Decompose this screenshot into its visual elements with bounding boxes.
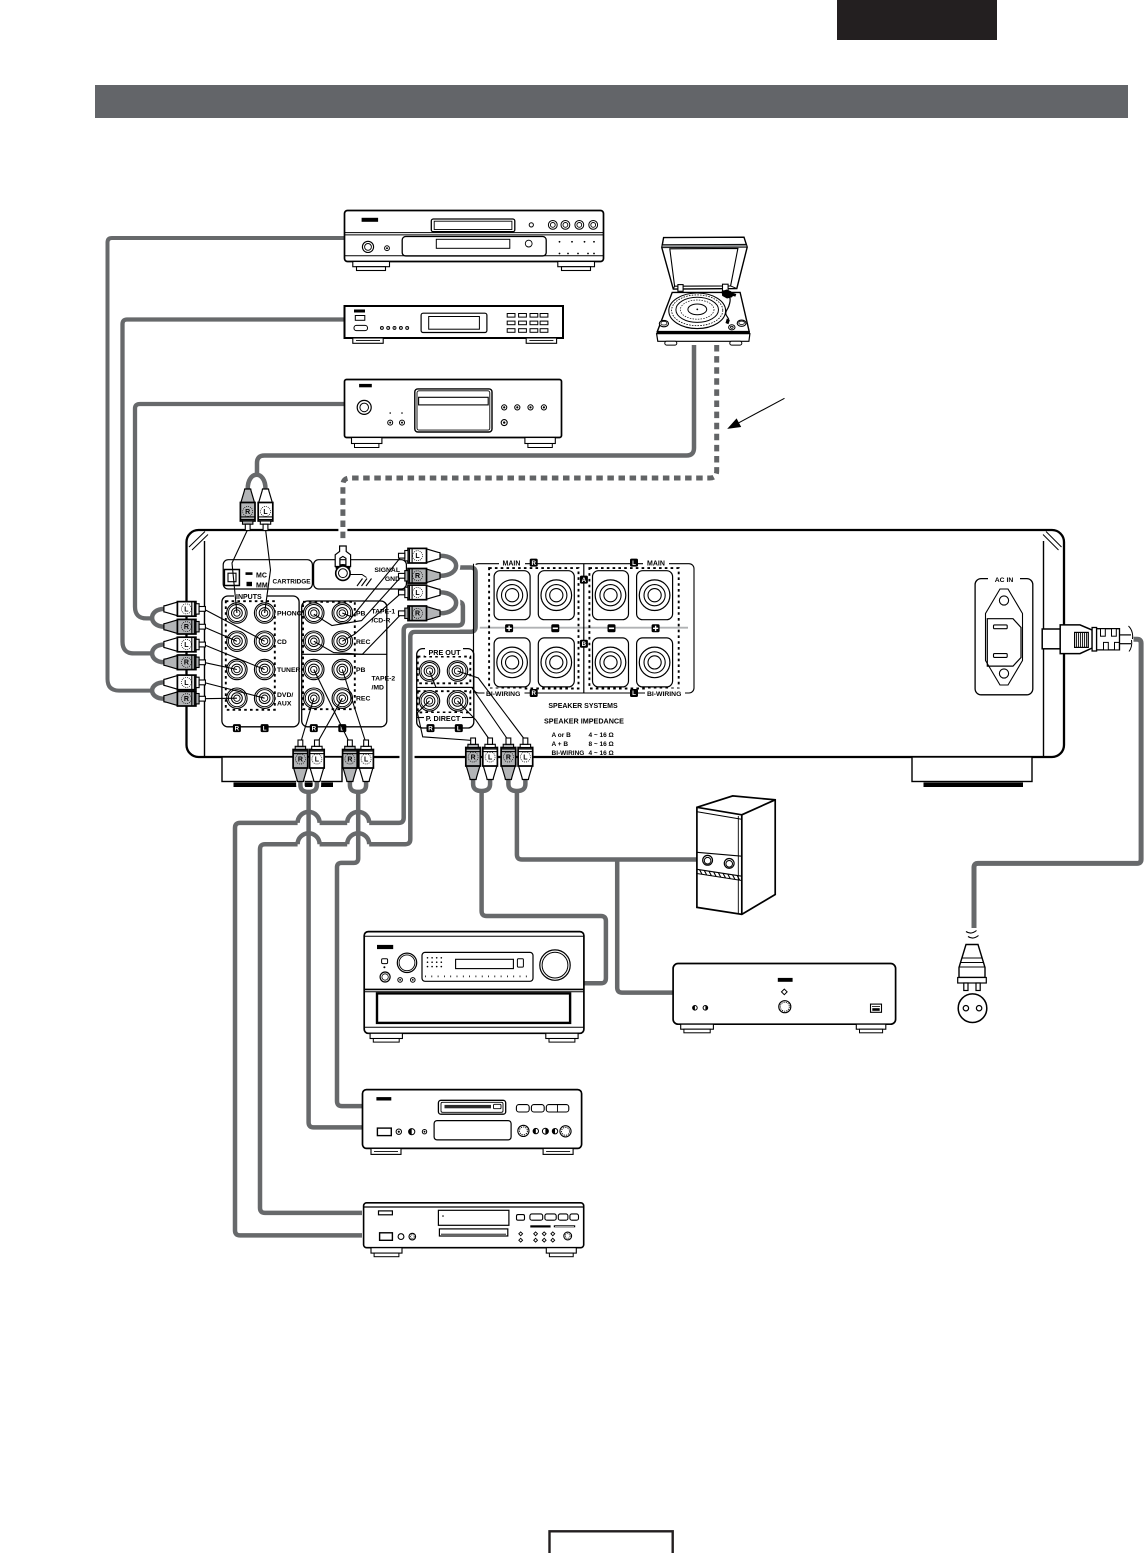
- TUNER jack L: [254, 659, 274, 679]
- svg-text:R: R: [531, 690, 536, 697]
- svg-text:A: A: [582, 577, 587, 584]
- TAPE-2 REC jack L: [332, 688, 352, 708]
- svg-text:REC: REC: [356, 696, 370, 703]
- power cord gray cable: [974, 639, 1141, 928]
- SPEAKER IMPEDANCE table: [544, 717, 624, 758]
- wire phono L plug to PHONO L jack: [265, 529, 271, 613]
- wire TUNER R plug to TUNER R jack: [203, 662, 237, 669]
- TAPE-2 PB jack R: [304, 659, 324, 679]
- cartridge box: [223, 560, 312, 589]
- svg-text:PRE OUT: PRE OUT: [429, 648, 462, 657]
- PRE OUT / P.DIRECT block: [417, 649, 474, 728]
- phono plug R (from turntable): [240, 489, 255, 531]
- svg-text:8 ~ 16 Ω: 8 ~ 16 Ω: [589, 741, 614, 748]
- power amplifier: [673, 964, 896, 1033]
- svg-text:/CD-R: /CD-R: [372, 618, 391, 625]
- svg-text:L: L: [457, 725, 461, 732]
- bottom page label box: [550, 1531, 673, 1553]
- R marker under TAPE column: [310, 724, 318, 732]
- svg-text:R: R: [245, 509, 250, 516]
- TUNER plug L: [164, 637, 206, 652]
- P.DIRECT jack R: [419, 691, 439, 711]
- TAPE-1 plug R (REC): [399, 606, 441, 621]
- wire P.DIRECT R jack to plug: [417, 701, 473, 741]
- AC inlet socket: [986, 589, 1023, 685]
- AV surround receiver: [364, 932, 584, 1043]
- svg-text:L: L: [263, 725, 267, 732]
- speaker: [697, 796, 775, 915]
- MC label: [246, 572, 267, 579]
- DVD/AUX jack L: [254, 688, 274, 708]
- svg-text:A + B: A + B: [552, 741, 569, 748]
- cable TAPE-1 REC run to CD recorder: [235, 602, 463, 1236]
- INPUTS block: [222, 596, 299, 727]
- svg-text:CD: CD: [277, 639, 287, 646]
- speaker group outline box: [474, 564, 695, 693]
- P.DIRECT label: [417, 713, 474, 723]
- wire PRE OUT R jack to plug: [430, 671, 509, 741]
- svg-text:A or B: A or B: [552, 732, 572, 739]
- wire P.DIRECT L jack to plug: [458, 701, 491, 741]
- tuner: [345, 306, 564, 343]
- svg-text:L: L: [184, 606, 189, 613]
- TUNER plug R: [164, 655, 206, 670]
- PHONO jack R: [227, 603, 247, 623]
- crossing hops on cable B: [347, 833, 369, 844]
- cable P.DIRECT pair loop: [508, 779, 525, 791]
- svg-text:PHONO: PHONO: [277, 611, 302, 618]
- header gray title bar: [95, 85, 1128, 118]
- A marker: [580, 576, 588, 584]
- tonearm: [725, 294, 731, 320]
- CD jack R: [227, 631, 247, 651]
- svg-text:R: R: [184, 624, 189, 631]
- svg-text:TAPE-1: TAPE-1: [372, 609, 396, 616]
- R marker bottom: [530, 689, 538, 697]
- svg-text:R: R: [184, 660, 189, 667]
- R marker under PHONO column: [233, 724, 241, 732]
- TAPE-2 PB plug R: [343, 740, 358, 782]
- L marker under PHONO column: [261, 724, 269, 732]
- svg-text:BI-WIRING: BI-WIRING: [647, 691, 681, 698]
- R marker under P.DIRECT: [427, 724, 435, 732]
- wire PRE OUT L jack to plug: [458, 671, 526, 741]
- speaker terminal R-B-: [538, 638, 574, 687]
- wire TAPE-1 REC L plug line: [342, 592, 402, 641]
- ground spade lug: [335, 546, 350, 567]
- L marker top: [630, 559, 638, 567]
- svg-text:MAIN: MAIN: [647, 561, 665, 568]
- svg-text:/MD: /MD: [372, 685, 385, 692]
- MAIN label right: [643, 558, 669, 568]
- wire CD player to amp (left vertical 3): [135, 404, 345, 618]
- MD deck: [363, 1090, 582, 1155]
- left speaker dotted box: [489, 568, 578, 688]
- CD recorder: [364, 1203, 584, 1257]
- PHONO jack L: [254, 603, 274, 623]
- svg-text:R: R: [298, 756, 303, 763]
- TAPE dotted box: [303, 602, 355, 709]
- wire CD R plug to CD R jack: [203, 627, 237, 642]
- svg-text:L: L: [488, 754, 493, 761]
- speaker terminal L-A+: [637, 571, 673, 620]
- arrow pointing at turntable cables: [727, 398, 784, 429]
- wire DVD/AUX R plug to jack: [203, 697, 237, 700]
- amp right foot: [912, 757, 1032, 787]
- AC IN label: [988, 574, 1020, 584]
- svg-text:TAPE-2: TAPE-2: [372, 676, 396, 683]
- PRE OUT jack L: [447, 661, 467, 681]
- wire TAPE-1 PB L plug line: [342, 556, 402, 617]
- wall plug: [958, 945, 987, 991]
- CD plug L: [164, 602, 206, 617]
- amplifier body: [187, 530, 1065, 757]
- cable loop pair1 CD: [152, 609, 164, 627]
- wire DVD/AUX L plug to jack: [203, 682, 264, 698]
- + marker: [505, 624, 513, 632]
- svg-text:L: L: [184, 680, 189, 687]
- svg-text:SIGNAL: SIGNAL: [374, 567, 400, 574]
- DVD player: [345, 211, 604, 271]
- MC/MM selector square: [224, 570, 239, 586]
- svg-text:L: L: [632, 690, 636, 697]
- - marker: [608, 624, 616, 632]
- L marker bottom: [630, 689, 638, 697]
- cable loop pair2 TUNER: [152, 645, 164, 663]
- svg-text:L: L: [632, 560, 636, 567]
- amp left foot: [222, 757, 342, 787]
- svg-text:MAIN: MAIN: [503, 561, 521, 568]
- DVD/AUX label: [277, 692, 293, 708]
- speaker terminal R-B+: [494, 638, 530, 687]
- PRE OUT jack R: [419, 661, 439, 681]
- wire TUNER L plug to TUNER L jack: [203, 645, 264, 670]
- svg-text:SPEAKER IMPEDANCE: SPEAKER IMPEDANCE: [544, 717, 624, 726]
- TAPE-1 plug L (PB): [399, 548, 441, 563]
- wire TAPE-1 PB R plug line: [314, 576, 402, 626]
- TAPE-1 PB jack L: [332, 603, 352, 623]
- right speaker dotted box: [589, 568, 678, 688]
- svg-text:MM: MM: [256, 582, 268, 589]
- wire phono R plug to PHONO R jack: [232, 529, 248, 613]
- svg-text:R: R: [347, 756, 352, 763]
- power cord break mark: [966, 931, 977, 934]
- - marker: [551, 624, 559, 632]
- svg-text:L: L: [415, 553, 420, 560]
- svg-text:L: L: [364, 756, 369, 763]
- P.DIRECT dotted box: [418, 691, 471, 712]
- R marker top: [530, 559, 538, 567]
- signal gnd box: [314, 560, 407, 589]
- wire TAPE-2 PB L jack to plug: [342, 670, 366, 744]
- svg-text:R: R: [471, 754, 476, 761]
- svg-text:R: R: [506, 754, 511, 761]
- BI-WIRING label left: [485, 689, 525, 699]
- wire TAPE-2 PB R jack to plug: [314, 670, 350, 744]
- svg-text:L: L: [415, 590, 420, 597]
- AC IN box: [975, 579, 1033, 695]
- speaker terminal R-A-: [538, 571, 574, 620]
- cable TAPE-1 PB loop: [440, 556, 456, 576]
- crossing hops on cable A: [347, 812, 369, 823]
- INPUTS label: [234, 591, 267, 601]
- svg-text:B: B: [582, 641, 587, 648]
- DVD/AUX plug R: [164, 691, 206, 706]
- phono plug L (from turntable): [258, 489, 273, 531]
- TAPE-2 PB jack L: [332, 659, 352, 679]
- cable PRE OUT run to AV amp: [482, 791, 606, 983]
- svg-text:P. DIRECT: P. DIRECT: [426, 714, 461, 723]
- svg-text:R: R: [312, 725, 317, 732]
- MM label: [247, 582, 268, 590]
- svg-text:R: R: [531, 560, 536, 567]
- + marker: [652, 624, 660, 632]
- INPUTS dotted box: [226, 601, 275, 710]
- TAPE-2/MD label: [372, 676, 396, 692]
- speaker area mid seam line: [478, 627, 688, 629]
- PRE OUT dotted box: [418, 657, 471, 684]
- TAPE-1 PB jack R: [304, 603, 324, 623]
- svg-text:L: L: [523, 754, 528, 761]
- TAPE-1/CD-R label: [372, 609, 396, 625]
- speaker terminal R-A+: [494, 571, 530, 620]
- L marker under TAPE column: [338, 724, 346, 732]
- svg-text:GND: GND: [385, 576, 400, 583]
- CD player: [345, 380, 562, 448]
- speaker box edge over cable: [473, 564, 475, 693]
- svg-text:4 ~ 16 Ω: 4 ~ 16 Ω: [589, 732, 614, 739]
- SIGNAL GND label: [374, 567, 400, 583]
- svg-text:R: R: [415, 573, 420, 580]
- TAPE-2 REC plug L: [310, 740, 325, 782]
- svg-text:BI-WIRING: BI-WIRING: [552, 750, 585, 757]
- wire tuner to amp (left vertical 2): [123, 320, 345, 654]
- wire turntable audio cable: [257, 345, 694, 475]
- BI-WIRING label right: [645, 689, 685, 699]
- wall socket: [958, 994, 987, 1023]
- DVD/AUX jack R: [227, 688, 247, 708]
- speaker terminal L-B+: [637, 638, 673, 687]
- speaker terminal L-B-: [593, 638, 629, 687]
- svg-text:AC IN: AC IN: [995, 577, 1014, 584]
- P.DIRECT plug L: [518, 738, 533, 780]
- CD jack L: [254, 631, 274, 651]
- cable TAPE-1 PB run to CD recorder: [260, 568, 476, 1213]
- wire TAPE-2 REC L jack to plug: [317, 698, 342, 743]
- svg-text:L: L: [315, 756, 320, 763]
- PRE OUT plug L: [483, 738, 498, 780]
- CD plug R: [164, 619, 206, 634]
- TAPE-1 REC jack L: [332, 631, 352, 651]
- cable TAPE-1 REC loop: [440, 592, 456, 613]
- TAPE-1 plug R (PB): [399, 569, 441, 584]
- TAPE-1 REC jack R: [304, 631, 324, 651]
- PRE OUT label: [425, 647, 463, 657]
- svg-text:REC: REC: [356, 639, 370, 646]
- P.DIRECT jack L: [447, 691, 467, 711]
- cable P.DIRECT run to power amp and speaker: [517, 791, 698, 860]
- svg-text:AUX: AUX: [277, 700, 292, 707]
- P.DIRECT plug R: [501, 738, 516, 780]
- svg-text:PB: PB: [356, 667, 366, 674]
- svg-text:4 ~ 16 Ω: 4 ~ 16 Ω: [589, 750, 614, 757]
- svg-text:CARTRIDGE: CARTRIDGE: [273, 579, 312, 586]
- svg-text:R: R: [415, 611, 420, 618]
- B marker: [580, 640, 588, 648]
- cable loop pair3 DVD/AUX: [152, 682, 164, 698]
- cable PRE OUT pair loop: [473, 779, 490, 791]
- PRE OUT plug R: [466, 738, 481, 780]
- TAPE-2 REC plug R: [293, 740, 308, 782]
- svg-text:INPUTS: INPUTS: [236, 594, 262, 601]
- svg-text:SPEAKER SYSTEMS: SPEAKER SYSTEMS: [548, 703, 618, 710]
- AC power plug: [1042, 625, 1132, 654]
- svg-text:R: R: [428, 725, 433, 732]
- TAPE block: [302, 601, 387, 727]
- svg-text:L: L: [263, 509, 268, 516]
- svg-text:MC: MC: [256, 573, 267, 580]
- svg-text:R: R: [184, 696, 189, 703]
- cable fork to phono plugs: [248, 475, 266, 489]
- wire CD L plug to CD L jack: [203, 609, 264, 641]
- DVD/AUX plug L: [164, 675, 206, 690]
- wire TAPE-2 REC R jack to plug: [300, 698, 313, 743]
- TAPE-1 plug L (REC): [399, 585, 441, 600]
- header black box: [837, 0, 997, 40]
- wire DVD player to amp (left vertical 1): [108, 238, 345, 691]
- TAPE-2 REC jack R: [304, 688, 324, 708]
- ground screw terminal: [336, 565, 350, 581]
- TUNER jack R: [227, 659, 247, 679]
- wire TAPE-1 REC R plug line: [314, 613, 402, 654]
- L marker under P.DIRECT: [455, 724, 463, 732]
- speaker terminal L-A-: [593, 571, 629, 620]
- svg-text:L: L: [184, 642, 189, 649]
- svg-text:TUNER: TUNER: [277, 667, 301, 674]
- turntable ground dashed cable: [343, 345, 717, 545]
- cable TAPE-2 REC pair loop and run to MD deck: [300, 781, 317, 792]
- turntable: [657, 237, 750, 345]
- svg-text:DVD/: DVD/: [277, 692, 293, 699]
- svg-text:R: R: [235, 725, 240, 732]
- ground hatch symbol: [350, 575, 372, 587]
- svg-text:PB: PB: [356, 611, 366, 618]
- cable TAPE-2 PB pair loop and run to MD deck: [350, 781, 366, 792]
- MAIN label left: [499, 558, 525, 568]
- TAPE-2 PB plug L: [359, 740, 374, 782]
